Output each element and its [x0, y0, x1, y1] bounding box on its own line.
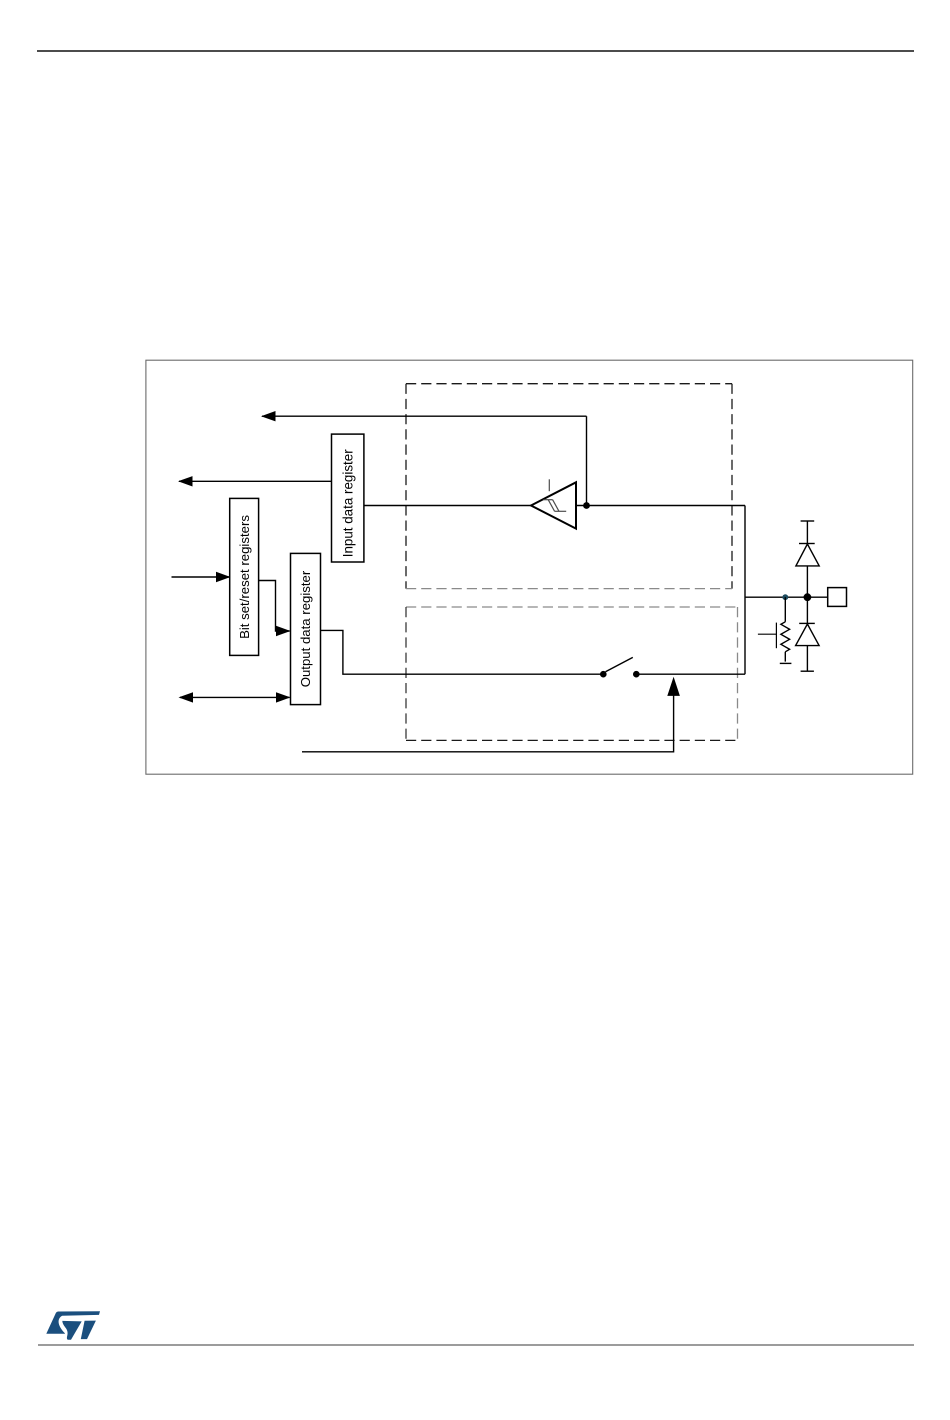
top header rule [37, 50, 915, 51]
figure: GPIO port bit basic structure [145, 359, 914, 776]
VDD terminal [801, 520, 815, 522]
schmitt trigger U1 [531, 479, 576, 528]
output data register box [291, 553, 321, 704]
bottom footer rule [38, 1344, 915, 1346]
output control line with up arrow [302, 677, 680, 752]
svg-text:Bit set/reset registers: Bit set/reset registers [237, 515, 252, 639]
output switch [600, 657, 745, 677]
bit set/reset registers box [230, 498, 259, 655]
wire: bit set/reset to output data register [259, 581, 291, 637]
pull-up/down resistor R [780, 597, 792, 663]
protection diode to VSS [796, 597, 820, 671]
svg-text:Input data register: Input data register [340, 449, 355, 557]
wire: write arrow into bit set/reset registers [172, 572, 231, 582]
input data register box [332, 434, 364, 562]
I/O pin pad square [828, 588, 847, 607]
wire: output data register to switch [321, 630, 603, 674]
figure frame [146, 360, 913, 774]
junction dot (resistor tap) [782, 594, 788, 600]
wire: schmitt trigger to pad node [576, 505, 745, 507]
wire: arrow from input data register to bus [178, 476, 332, 486]
input driver dashed box [406, 384, 732, 589]
wire: pad horizontal [745, 596, 828, 598]
wire: input data register to schmitt trigger [364, 505, 531, 507]
resistor enable lever [758, 623, 777, 649]
wire: right vertical bus [744, 506, 746, 675]
junction dot at trigger output [583, 502, 590, 509]
protection diode to VDD [796, 521, 819, 597]
wire: read tap vertical [586, 416, 588, 505]
VSS terminal [801, 670, 814, 672]
ST logo [46, 1311, 100, 1340]
junction dot (diode tap) [804, 593, 812, 601]
svg-text:Output data register: Output data register [298, 570, 313, 687]
read wire (top arrow) [261, 411, 587, 421]
read/write double arrow [179, 692, 291, 702]
output driver dashed box [406, 607, 738, 740]
